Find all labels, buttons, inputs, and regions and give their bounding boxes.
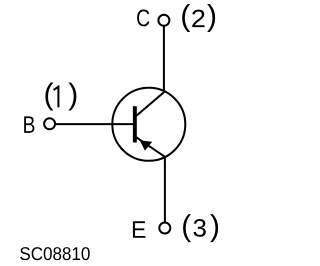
text pin (3) open paren — [183, 214, 191, 242]
terminal C open circle — [158, 15, 169, 26]
wire collector vertical to C terminal — [163, 26, 165, 92]
pin (1) digit 1 (drawn strokes) — [54, 87, 59, 108]
text pin (3) close paren — [210, 214, 218, 242]
wire emitter diagonal inside Q1 — [135, 137, 165, 157]
text pin (1) close paren — [68, 83, 76, 111]
text figure id SC08810 — [20, 247, 90, 260]
wire base: B terminal to bar — [56, 123, 135, 125]
text label C — [137, 9, 149, 26]
transistor Q1 body circle — [112, 88, 185, 161]
transistor Q1 base bar — [133, 106, 137, 142]
text label B — [24, 116, 34, 133]
wire emitter vertical to E terminal — [164, 157, 166, 223]
terminal E open circle — [159, 223, 170, 234]
terminal B open circle — [44, 118, 55, 129]
text pin (2) digit 2 — [192, 10, 204, 27]
text pin (2) close paren — [207, 4, 215, 32]
text pin (3) digit 3 — [194, 219, 206, 237]
text pin (2) open paren — [182, 4, 190, 32]
emitter arrow pointing to base (PNP) — [140, 140, 153, 150]
text pin (1) open paren — [45, 83, 53, 111]
wire collector diagonal inside Q1 — [135, 92, 164, 117]
text label E — [133, 221, 145, 238]
